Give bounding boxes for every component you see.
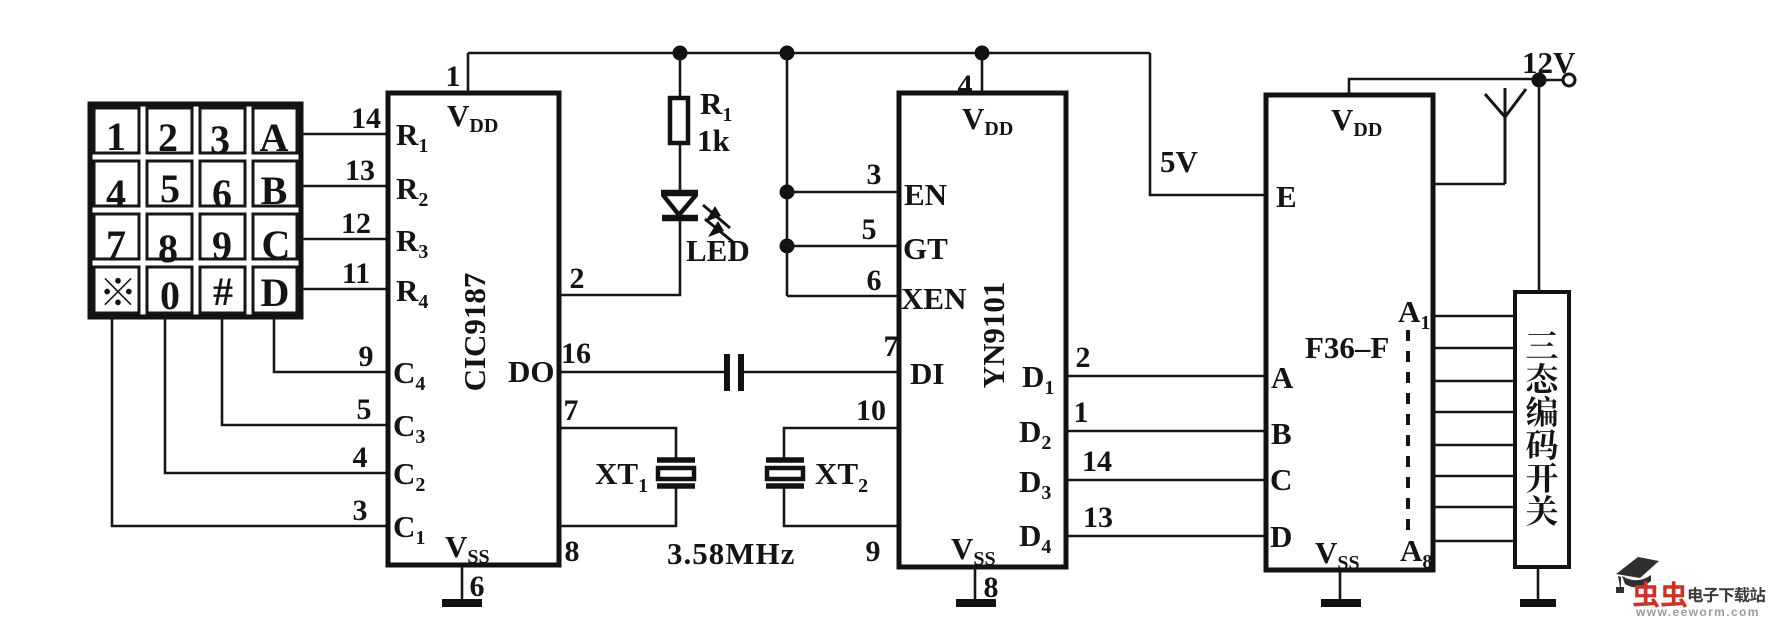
bus wire A7 — [1433, 506, 1515, 509]
ground at U3 VSS — [1321, 599, 1361, 607]
svg-text:14: 14 — [351, 102, 381, 135]
coupling capacitor between DO and DI — [727, 354, 741, 391]
svg-text:#: # — [213, 269, 233, 314]
svg-text:7: 7 — [564, 394, 579, 427]
svg-text:2: 2 — [158, 115, 178, 160]
IC U3 F36-F body — [1266, 95, 1433, 570]
wire 5V from rail to F36-F E — [1150, 53, 1266, 195]
svg-text:13: 13 — [1083, 501, 1113, 534]
switch label 三态编码开关 vertical — [1526, 331, 1558, 526]
bus wire A4 — [1433, 411, 1515, 414]
wire U1 pin 2 to LED cathode — [559, 221, 680, 295]
svg-text:D: D — [1270, 519, 1292, 554]
LED light emission arrows — [703, 205, 733, 242]
junction dot 12V node — [1532, 73, 1547, 88]
svg-text:1: 1 — [446, 60, 461, 93]
svg-text:YN9101: YN9101 — [976, 282, 1011, 389]
svg-text:12: 12 — [341, 207, 371, 240]
svg-text:CIC9187: CIC9187 — [457, 273, 492, 392]
svg-text:3: 3 — [867, 158, 882, 191]
wire 12V node to terminal — [1539, 79, 1563, 82]
svg-text:C: C — [1270, 462, 1292, 497]
svg-text:9: 9 — [212, 223, 232, 268]
svg-text:2: 2 — [1076, 341, 1091, 374]
svg-text:5: 5 — [357, 393, 372, 426]
svg-text:LED: LED — [686, 233, 750, 268]
svg-text:7: 7 — [884, 330, 899, 363]
svg-text:5: 5 — [862, 213, 877, 246]
svg-text:1k: 1k — [697, 123, 731, 158]
switch ground wire — [1537, 567, 1540, 602]
LED D1 — [661, 193, 698, 218]
svg-text:3: 3 — [353, 494, 368, 527]
svg-text:10: 10 — [856, 394, 886, 427]
wire U2 D2 pin 1 to F36-F B — [1066, 430, 1266, 433]
wire to EN pin 3 — [787, 191, 899, 194]
wire VDD top rail — [468, 52, 1150, 55]
svg-text:5V: 5V — [1160, 144, 1199, 179]
tri-state code switch box — [1515, 292, 1569, 567]
junction dot at R1 branch — [673, 46, 688, 61]
resistor R1 — [670, 98, 688, 143]
wire YN9101 pin 9 to XT2 bottom — [784, 487, 899, 526]
svg-text:E: E — [1276, 179, 1297, 214]
svg-text:2: 2 — [570, 262, 585, 295]
wire R1 to LED anode — [679, 143, 682, 193]
bus wire A8 — [1433, 540, 1515, 543]
svg-text:3: 3 — [210, 117, 230, 162]
junction dot EN — [780, 185, 795, 200]
svg-text:5: 5 — [160, 166, 180, 211]
wire U2 D1 pin 2 to F36-F A — [1066, 375, 1266, 378]
svg-text:6: 6 — [212, 171, 232, 216]
svg-text:4: 4 — [353, 441, 368, 474]
dashed line A1..A8 — [1406, 330, 1410, 534]
svg-text:A: A — [1271, 360, 1294, 395]
wire to XEN pin 6 — [787, 295, 899, 298]
wire U3 RF output to antenna — [1433, 183, 1505, 186]
wire U1 pin 8 to XT1 bottom — [559, 487, 676, 526]
ground at U1 VSS — [442, 599, 482, 607]
svg-text:F36–F: F36–F — [1305, 330, 1389, 365]
svg-text:0: 0 — [160, 273, 180, 318]
svg-text:1: 1 — [106, 114, 126, 159]
wire U1 pin 7 to XT1 top — [559, 428, 676, 459]
svg-text:11: 11 — [342, 257, 370, 290]
junction dot GT — [780, 239, 795, 254]
svg-text:13: 13 — [345, 154, 375, 187]
12V terminal circle — [1563, 74, 1575, 86]
wire keypad col1 to C1 pin 3 — [112, 313, 388, 526]
svg-text:4: 4 — [106, 171, 126, 216]
wire YN9101 pin 10 to XT2 top — [784, 428, 899, 459]
antenna — [1485, 88, 1526, 184]
U3 VSS ground wire — [1339, 570, 1342, 602]
svg-text:7: 7 — [106, 222, 126, 267]
U2 VSS pin 8 ground wire — [974, 567, 977, 602]
IC U2 YN9101 body — [899, 93, 1066, 567]
wire keypad col4 to C4 pin 9 — [274, 313, 388, 372]
wire keypad row1 to R1 pin 14 — [301, 133, 388, 136]
wire CIC9187 VDD pin 1 to rail — [467, 53, 470, 93]
ground at switch — [1520, 599, 1556, 607]
wire keypad row3 to R3 pin 12 — [301, 238, 388, 241]
bus wire A5 — [1433, 444, 1515, 447]
svg-text:DI: DI — [910, 356, 944, 391]
wire keypad col3 to C3 pin 5 — [222, 313, 388, 425]
wire U2 D4 pin 13 to F36-F D — [1066, 535, 1266, 538]
junction dot at YN9101 VDD pin 4 — [975, 46, 990, 61]
wire U1 DO pin 16 — [559, 371, 724, 374]
wire keypad row4 to R4 pin 11 — [301, 288, 388, 291]
keypad cell borders — [94, 108, 297, 313]
watermark 电子下载站 text — [1689, 587, 1766, 603]
svg-text:3.58MHz: 3.58MHz — [667, 536, 795, 571]
wire 12V node down to switch box — [1538, 80, 1541, 292]
svg-text:9: 9 — [866, 535, 881, 568]
bus wire A1 — [1433, 315, 1515, 318]
junction dot at EN/GT/XEN branch — [780, 46, 795, 61]
svg-text:6: 6 — [867, 264, 882, 297]
bus wire A3 — [1433, 380, 1515, 383]
svg-text:8: 8 — [158, 226, 178, 271]
svg-text:www.eeworm.com: www.eeworm.com — [1635, 605, 1760, 617]
svg-text:9: 9 — [359, 340, 374, 373]
svg-text:A: A — [260, 115, 289, 160]
watermark graduation cap — [1616, 557, 1659, 593]
wire EN/GT/XEN tie line from rail — [786, 53, 789, 296]
svg-text:4: 4 — [958, 69, 973, 102]
U1 VSS pin 6 ground wire — [461, 565, 464, 602]
wire rail to resistor R1 — [679, 53, 682, 98]
svg-text:12V: 12V — [1522, 45, 1576, 80]
IC U1 CIC9187 body — [388, 93, 559, 565]
crystal XT1 — [657, 460, 695, 486]
wire to GT pin 5 — [787, 245, 899, 248]
ground at U2 VSS — [956, 599, 996, 607]
svg-text:1: 1 — [1074, 396, 1089, 429]
bus wire A6 — [1433, 475, 1515, 478]
svg-text:8: 8 — [565, 535, 580, 568]
wire keypad row2 to R2 pin 13 — [301, 185, 388, 188]
wire U3 VDD to 12V node — [1349, 79, 1539, 95]
svg-text:GT: GT — [903, 231, 948, 266]
bus wire A2 — [1433, 347, 1515, 350]
svg-text:D: D — [261, 270, 290, 315]
svg-text:16: 16 — [561, 337, 591, 370]
wire keypad col2 to C2 pin 4 — [165, 313, 388, 473]
wire capacitor to YN9101 DI pin 7 — [744, 371, 899, 374]
watermark 虫虫 red text — [1633, 581, 1687, 608]
crystal XT2 — [766, 460, 804, 486]
svg-text:XEN: XEN — [901, 281, 966, 316]
svg-text:C: C — [262, 222, 291, 267]
wire U2 VDD pin 4 to rail — [981, 53, 984, 93]
svg-text:DO: DO — [508, 354, 555, 389]
svg-text:EN: EN — [904, 177, 947, 212]
svg-text:14: 14 — [1082, 445, 1112, 478]
keypad 4x4 matrix outer frame — [90, 104, 301, 317]
svg-text:B: B — [261, 168, 288, 213]
keypad key labels — [106, 114, 290, 271]
svg-text:6: 6 — [470, 570, 485, 603]
wire U2 D3 pin 14 to F36-F C — [1066, 479, 1266, 482]
svg-text:B: B — [1271, 416, 1292, 451]
